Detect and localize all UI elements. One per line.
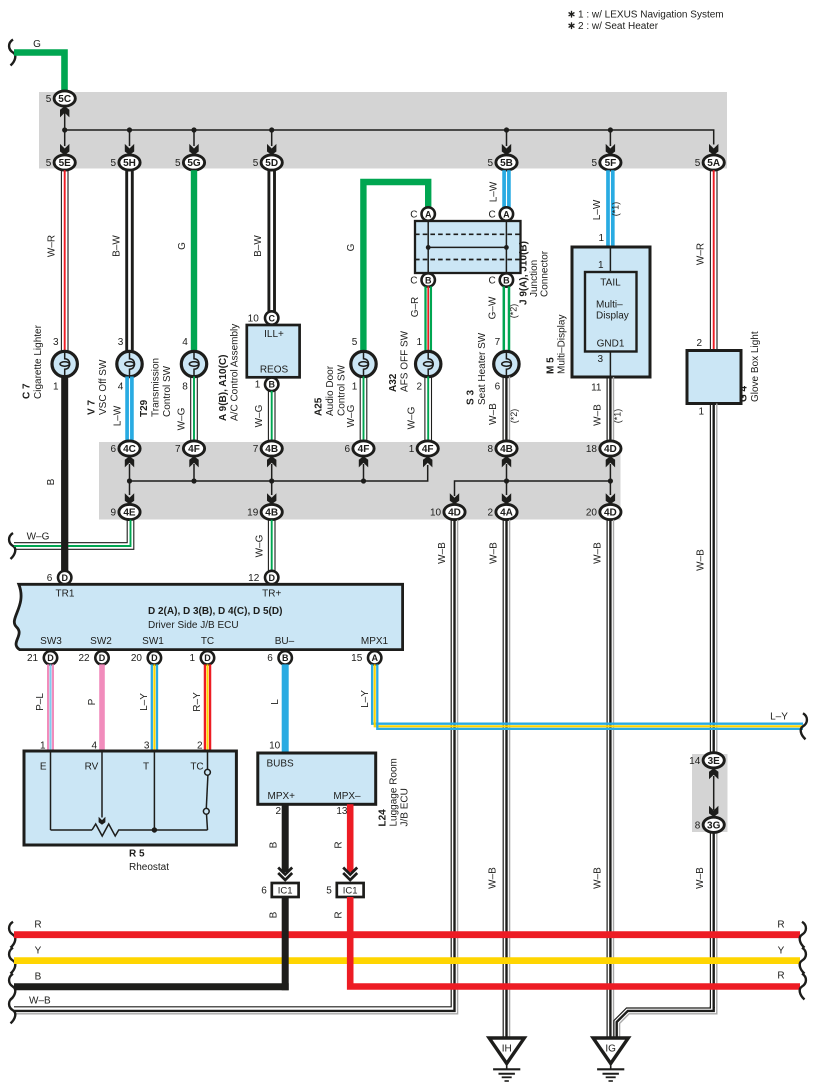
wire W-B M5 to 4D xyxy=(606,377,608,441)
junction connector J9(A) J10(B) xyxy=(415,221,521,273)
svg-text:V 7: V 7 xyxy=(87,400,98,415)
connector 5D xyxy=(261,155,282,170)
connector 4F pin7 xyxy=(183,441,204,456)
svg-text:L: L xyxy=(270,699,281,705)
svg-text:W–B: W–B xyxy=(593,542,604,564)
multi-display M5 xyxy=(572,247,650,377)
wire W-R 5E to C7 xyxy=(60,170,62,351)
arrow down to 3G xyxy=(709,806,718,817)
power bus band (top) xyxy=(39,92,727,169)
rheostat R5 box xyxy=(24,751,236,845)
rail R upper xyxy=(9,922,15,948)
svg-text:W–G: W–G xyxy=(27,532,50,543)
arrow chevrons into IC1 left xyxy=(278,868,292,875)
arrow down to 4D-20 xyxy=(609,481,611,495)
svg-text:P: P xyxy=(87,698,98,705)
svg-text:W–G: W–G xyxy=(346,404,357,427)
svg-text:Cigarette Lighter: Cigarette Lighter xyxy=(33,324,44,399)
svg-text:A: A xyxy=(425,209,432,219)
svg-text:6: 6 xyxy=(267,653,273,664)
bus line inside top band xyxy=(65,130,714,145)
wire R-Y TC to rheostat pin2 xyxy=(204,664,206,751)
connector band 3E/3G xyxy=(692,754,728,832)
svg-text:7: 7 xyxy=(175,444,181,455)
arrow down to 4A-2 xyxy=(506,481,508,495)
svg-text:1: 1 xyxy=(409,444,415,455)
svg-text:3: 3 xyxy=(118,337,124,348)
svg-text:5: 5 xyxy=(326,885,332,896)
svg-text:5H: 5H xyxy=(123,158,136,169)
svg-text:6: 6 xyxy=(345,444,351,455)
svg-text:MPX1: MPX1 xyxy=(361,636,389,647)
svg-text:5: 5 xyxy=(352,337,358,348)
connector 4D pin18 xyxy=(600,441,621,456)
svg-text:D: D xyxy=(151,653,158,663)
ECU D2(A) D3(B) D4(C) D5(D) driver side J/B ECU box xyxy=(14,584,402,649)
connector 4C xyxy=(119,441,140,456)
pin 21 D SW3 xyxy=(44,651,57,664)
arrow down to 4E xyxy=(129,481,131,495)
svg-text:B: B xyxy=(425,275,432,285)
wire W-B S3 to 4B xyxy=(502,377,504,442)
wire W-G A25 to 4F xyxy=(359,377,361,442)
svg-text:C: C xyxy=(268,313,275,323)
svg-text:4B: 4B xyxy=(265,444,278,455)
wire G feed from previous page xyxy=(9,40,15,66)
wire R L24 MPX- to IC1 xyxy=(347,804,354,872)
connector 4B pin7 xyxy=(261,441,282,456)
svg-text:8: 8 xyxy=(182,382,188,393)
lamp S3 seat heater switch xyxy=(494,351,519,376)
wire P-L SW3 to rheostat pin1 xyxy=(47,664,49,751)
svg-text:4B: 4B xyxy=(265,508,278,519)
svg-text:B: B xyxy=(282,653,289,663)
ECU L24 luggage room box xyxy=(258,753,376,804)
svg-text:4B: 4B xyxy=(500,444,513,455)
arrow down to band connector xyxy=(506,130,508,146)
svg-text:Multi–Display: Multi–Display xyxy=(557,315,568,374)
arrow up to 3E xyxy=(713,776,715,810)
svg-text:B: B xyxy=(503,275,510,285)
arrow up to 4B-7 xyxy=(271,464,273,481)
junction block band (middle) xyxy=(99,442,621,520)
junction dot 5G column xyxy=(191,127,196,132)
wire W-G A32 to 4F xyxy=(424,377,426,442)
svg-text:(*1): (*1) xyxy=(613,409,623,424)
svg-text:4E: 4E xyxy=(123,508,136,519)
svg-text:G: G xyxy=(33,39,41,50)
lamp A25 audio door control switch xyxy=(351,351,376,376)
svg-text:TAIL: TAIL xyxy=(600,278,621,289)
pin 6 B BU- xyxy=(279,651,292,664)
arrow up to 4B-8 xyxy=(506,464,508,481)
connector 5G xyxy=(183,155,204,170)
connector 3E pin14 xyxy=(703,753,724,768)
wire W-R 5A to G4 glove box light xyxy=(709,170,711,351)
ground IG xyxy=(593,1038,628,1064)
svg-text:1: 1 xyxy=(352,382,358,393)
svg-text:B–W: B–W xyxy=(253,235,264,257)
arrow up to 4C xyxy=(129,464,131,481)
svg-text:5C: 5C xyxy=(58,94,71,105)
svg-text:B: B xyxy=(268,380,275,390)
svg-text:D: D xyxy=(204,653,211,663)
svg-text:14: 14 xyxy=(689,756,701,767)
svg-text:Seat Heater SW: Seat Heater SW xyxy=(477,332,488,405)
svg-text:IH: IH xyxy=(502,1044,512,1055)
connector 4E pin9 xyxy=(119,504,140,519)
rheostat wiper junction dot xyxy=(152,827,157,832)
rail Y xyxy=(9,948,15,974)
arrow up to 4D-18 xyxy=(609,464,611,481)
svg-text:R: R xyxy=(334,911,345,918)
svg-text:G 4: G 4 xyxy=(739,385,750,402)
wire L-W 5F to M5 multi-display xyxy=(606,170,610,247)
svg-text:R: R xyxy=(777,920,784,931)
svg-text:TR1: TR1 xyxy=(56,589,75,600)
svg-text:D: D xyxy=(268,573,275,583)
svg-text:TC: TC xyxy=(190,762,203,773)
svg-text:C: C xyxy=(410,209,417,220)
junction dot 5F column xyxy=(608,127,613,132)
svg-text:IC1: IC1 xyxy=(343,886,358,897)
pin 12 D TR+ xyxy=(265,571,278,584)
svg-text:9: 9 xyxy=(111,508,117,519)
svg-text:IG: IG xyxy=(605,1044,616,1055)
wire B-W 5D to A/C assembly pin 10 xyxy=(267,170,270,311)
arrow chevrons into IC1 right xyxy=(343,868,357,875)
svg-text:W–R: W–R xyxy=(696,243,707,265)
svg-text:W–R: W–R xyxy=(47,235,58,257)
svg-text:4: 4 xyxy=(118,382,124,393)
wire L-Y SW1 to rheostat pin3 xyxy=(151,664,153,751)
svg-text:A 9(B), A10(C): A 9(B), A10(C) xyxy=(218,355,229,421)
connector 5C xyxy=(54,91,75,106)
svg-text:E: E xyxy=(40,762,47,773)
pin 15 A MPX1 xyxy=(368,651,381,664)
svg-text:Luggage Room: Luggage Room xyxy=(389,758,400,826)
wire L BU- to L24 pin10 xyxy=(282,664,289,753)
connector 4B pin19 xyxy=(261,504,282,519)
connector 5A xyxy=(703,155,724,170)
svg-text:L–W: L–W xyxy=(592,199,603,220)
svg-text:5F: 5F xyxy=(605,158,617,169)
svg-text:Control SW: Control SW xyxy=(162,365,173,417)
svg-text:B: B xyxy=(46,478,57,485)
svg-text:1: 1 xyxy=(598,233,604,244)
svg-text:A/C Control Assembly: A/C Control Assembly xyxy=(230,324,241,421)
arrow down to connector 5A xyxy=(709,144,718,155)
svg-text:Transmission: Transmission xyxy=(151,358,162,417)
svg-text:B: B xyxy=(35,972,42,983)
svg-text:5G: 5G xyxy=(187,158,201,169)
note: option footnotes xyxy=(571,11,573,18)
svg-text:D 2(A), D 3(B), D 4(C), D 5(D): D 2(A), D 3(B), D 4(C), D 5(D) xyxy=(148,606,282,617)
svg-text:W–B: W–B xyxy=(437,542,448,564)
svg-text:5: 5 xyxy=(111,158,117,169)
svg-text:5: 5 xyxy=(695,158,701,169)
svg-text:A32: A32 xyxy=(388,373,399,392)
svg-text:REOS: REOS xyxy=(260,365,289,376)
svg-text:L–Y: L–Y xyxy=(770,712,788,723)
svg-text:C 7: C 7 xyxy=(22,383,33,399)
pin 1 D TC xyxy=(201,651,214,664)
svg-text:11: 11 xyxy=(591,383,602,394)
svg-text:8: 8 xyxy=(488,444,494,455)
svg-text:5E: 5E xyxy=(59,158,72,169)
svg-text:4A: 4A xyxy=(500,508,513,519)
connector 4B pin8 xyxy=(496,441,517,456)
svg-text:12: 12 xyxy=(248,573,260,584)
svg-text:R: R xyxy=(777,971,784,982)
junction dot at 5C/5E column xyxy=(62,127,67,132)
junction dot 5D column xyxy=(269,127,274,132)
svg-text:W–B: W–B xyxy=(488,403,499,425)
svg-text:J 9(A), J10(B): J 9(A), J10(B) xyxy=(519,241,530,305)
svg-text:3: 3 xyxy=(597,354,603,365)
svg-text:D: D xyxy=(99,653,106,663)
svg-text:W–B: W–B xyxy=(593,867,604,889)
svg-text:(*1): (*1) xyxy=(611,202,621,217)
arrow up to 4F-7 xyxy=(193,464,195,481)
wire B C7 to driver side J/B ECU xyxy=(61,376,68,571)
arrow up to 4F-1 xyxy=(423,456,432,467)
svg-text:A25: A25 xyxy=(314,397,325,416)
arrow up to 4F-6 xyxy=(363,464,365,481)
svg-text:C: C xyxy=(488,209,495,220)
svg-text:TC: TC xyxy=(201,636,214,647)
svg-text:Rheostat: Rheostat xyxy=(129,862,169,873)
svg-text:20: 20 xyxy=(586,508,598,519)
pin 22 D SW2 xyxy=(95,651,108,664)
svg-text:W–G: W–G xyxy=(255,534,266,557)
svg-text:D: D xyxy=(61,573,68,583)
arrow down to band connector xyxy=(609,130,611,146)
junction pin C-B left xyxy=(422,273,435,286)
svg-text:2: 2 xyxy=(488,508,494,519)
svg-text:1 : w/ LEXUS Navigation System: 1 : w/ LEXUS Navigation System xyxy=(578,10,724,21)
svg-text:5D: 5D xyxy=(265,158,278,169)
svg-text:13: 13 xyxy=(336,806,348,817)
connector 5H xyxy=(119,155,140,170)
wire W-B 4D-10 down to W-B rail joining corner xyxy=(14,520,451,1007)
svg-text:R–Y: R–Y xyxy=(192,692,203,712)
wire B IC1 down to B rail xyxy=(282,897,289,990)
wire W-B 3G down and over to ground IG xyxy=(709,832,711,1008)
svg-text:5: 5 xyxy=(175,158,181,169)
svg-text:2 : w/ Seat Heater: 2 : w/ Seat Heater xyxy=(578,21,659,32)
wire R IC1 down to R rail lower xyxy=(350,897,800,987)
svg-text:GND1: GND1 xyxy=(597,339,625,350)
wire W-G 4B-19 to TR+ pin 12 xyxy=(267,520,269,572)
junction dot 5H column xyxy=(127,127,132,132)
rail W-B to previous page xyxy=(9,997,15,1023)
svg-text:G: G xyxy=(346,243,357,251)
svg-text:20: 20 xyxy=(131,653,143,664)
ground IH xyxy=(489,1038,524,1064)
svg-text:6: 6 xyxy=(495,382,501,393)
pin 20 D SW1 xyxy=(148,651,161,664)
connector 4D pin10 xyxy=(444,504,465,519)
svg-text:SW1: SW1 xyxy=(142,636,164,647)
svg-text:18: 18 xyxy=(586,444,598,455)
svg-text:4D: 4D xyxy=(604,444,617,455)
wire G 5G to T29 xyxy=(191,170,197,351)
svg-text:W–B: W–B xyxy=(488,867,499,889)
connector 4A pin2 xyxy=(496,504,517,519)
wire P SW2 to rheostat pin4 xyxy=(99,664,105,751)
arrow up to connector 5C xyxy=(64,112,66,130)
svg-text:6: 6 xyxy=(261,885,267,896)
svg-text:G–W: G–W xyxy=(488,296,499,319)
rheostat resistor element xyxy=(92,824,208,836)
svg-text:T: T xyxy=(143,762,149,773)
connector 5F xyxy=(600,155,621,170)
junction pin C-B right xyxy=(500,273,513,286)
svg-text:4F: 4F xyxy=(188,444,200,455)
svg-text:(*2): (*2) xyxy=(509,409,519,424)
svg-text:Glove Box Light: Glove Box Light xyxy=(750,331,761,402)
svg-text:C: C xyxy=(488,275,495,286)
svg-text:B: B xyxy=(269,841,280,848)
svg-text:W–B: W–B xyxy=(489,542,500,564)
svg-text:L–Y: L–Y xyxy=(139,693,150,711)
svg-text:4: 4 xyxy=(182,337,188,348)
connector 3G pin8 xyxy=(703,817,724,832)
connector 5E xyxy=(54,155,75,170)
svg-text:5: 5 xyxy=(488,158,494,169)
svg-text:Y: Y xyxy=(35,946,42,957)
svg-text:5: 5 xyxy=(591,158,597,169)
svg-text:T29: T29 xyxy=(139,399,150,417)
svg-text:10: 10 xyxy=(248,313,260,324)
connector 4F pin1 xyxy=(417,441,438,456)
svg-text:R 5: R 5 xyxy=(129,849,145,860)
svg-text:4C: 4C xyxy=(123,444,136,455)
wire L-W V7 to 4C xyxy=(125,377,129,442)
connector IC1 pin6 xyxy=(272,883,299,897)
wire G junction connector to A25 xyxy=(363,182,428,352)
svg-text:B: B xyxy=(269,911,280,918)
svg-text:W–G: W–G xyxy=(254,404,265,427)
svg-text:M 5: M 5 xyxy=(546,357,557,374)
svg-text:Multi–: Multi– xyxy=(596,300,623,311)
svg-text:W–B: W–B xyxy=(696,549,707,571)
A/C control assembly A9(B) A10(C) xyxy=(265,311,278,324)
svg-text:6: 6 xyxy=(111,444,117,455)
svg-text:G: G xyxy=(177,242,188,250)
svg-text:Junction: Junction xyxy=(529,260,540,297)
svg-text:W–G: W–G xyxy=(177,407,188,430)
svg-text:6: 6 xyxy=(47,573,53,584)
wire W-G A/C to 4B xyxy=(267,391,269,441)
svg-text:2: 2 xyxy=(416,382,422,393)
svg-text:4D: 4D xyxy=(448,508,461,519)
junction pin C-A right xyxy=(500,207,513,220)
svg-text:1: 1 xyxy=(190,653,196,664)
svg-text:A: A xyxy=(371,653,378,663)
svg-text:21: 21 xyxy=(27,653,39,664)
wire B-W 5H to V7 xyxy=(125,170,128,351)
svg-text:19: 19 xyxy=(247,508,259,519)
lamp T29 transmission control switch xyxy=(181,351,206,376)
wire G-W junction to S3 xyxy=(503,286,506,352)
svg-text:VSC Off SW: VSC Off SW xyxy=(98,359,109,415)
svg-text:R: R xyxy=(34,920,41,931)
svg-text:S 3: S 3 xyxy=(466,390,477,405)
svg-text:5: 5 xyxy=(46,94,52,105)
svg-text:1: 1 xyxy=(598,260,604,271)
wire W-B 4D-20 down to ground IG xyxy=(606,520,608,1038)
svg-text:7: 7 xyxy=(495,337,501,348)
svg-text:W–G: W–G xyxy=(407,406,418,429)
svg-text:Display: Display xyxy=(596,311,629,322)
svg-text:22: 22 xyxy=(78,653,90,664)
arrow down to band connector xyxy=(64,130,66,146)
svg-text:1: 1 xyxy=(255,380,261,391)
svg-text:D: D xyxy=(47,653,54,663)
svg-text:SW2: SW2 xyxy=(90,636,112,647)
wire W-B G4 glove box to 3E xyxy=(709,404,711,754)
rail B black xyxy=(9,974,15,1000)
wire L-W 5B to junction connector xyxy=(502,170,506,208)
lamp V7 VSC off switch xyxy=(117,351,142,376)
svg-text:BUBS: BUBS xyxy=(267,759,295,770)
wire W-G T29 to 4F xyxy=(190,377,192,442)
connector 5B xyxy=(496,155,517,170)
connector 4F pin6 xyxy=(353,441,374,456)
junction pin C-A left xyxy=(422,207,435,220)
lamp C7 cigarette lighter xyxy=(52,351,77,376)
svg-text:3G: 3G xyxy=(707,820,721,831)
connector 4D pin20 xyxy=(600,504,621,519)
svg-text:Audio Door: Audio Door xyxy=(325,365,336,416)
svg-text:L–Y: L–Y xyxy=(360,690,371,708)
wire B TR1 pin6 region xyxy=(58,571,71,584)
svg-text:10: 10 xyxy=(269,741,281,752)
svg-text:7: 7 xyxy=(253,444,259,455)
arrow down to 4D-10 xyxy=(450,493,459,504)
svg-text:4D: 4D xyxy=(604,508,617,519)
junction dot 5B column xyxy=(504,127,509,132)
svg-text:W–B: W–B xyxy=(593,404,604,426)
svg-text:3E: 3E xyxy=(708,756,721,767)
svg-text:5A: 5A xyxy=(707,158,720,169)
svg-text:ILL+: ILL+ xyxy=(264,329,284,340)
svg-text:J/B ECU: J/B ECU xyxy=(400,788,411,826)
svg-text:10: 10 xyxy=(430,508,442,519)
svg-text:8: 8 xyxy=(695,820,701,831)
svg-text:2: 2 xyxy=(696,338,702,349)
svg-text:3: 3 xyxy=(53,337,59,348)
svg-text:AFS OFF SW: AFS OFF SW xyxy=(400,330,411,392)
svg-text:Y: Y xyxy=(778,946,785,957)
arrow down to band connector xyxy=(129,130,131,146)
svg-text:MPX+: MPX+ xyxy=(268,791,296,802)
svg-text:1: 1 xyxy=(416,337,422,348)
wire L-Y MPX1 to right page xyxy=(372,664,803,723)
wire W-G from 4E to previous page xyxy=(9,533,15,559)
svg-text:SW3: SW3 xyxy=(40,636,62,647)
svg-text:L24: L24 xyxy=(378,809,389,827)
bus line band2 left net W-G xyxy=(130,465,428,481)
svg-text:W–B: W–B xyxy=(29,996,51,1007)
svg-text:Connector: Connector xyxy=(540,250,551,297)
svg-text:L–W: L–W xyxy=(489,181,500,202)
bus line band2 right net W-B xyxy=(455,481,611,496)
svg-text:Driver Side J/B ECU: Driver Side J/B ECU xyxy=(148,620,239,631)
svg-text:MPX–: MPX– xyxy=(333,791,361,802)
